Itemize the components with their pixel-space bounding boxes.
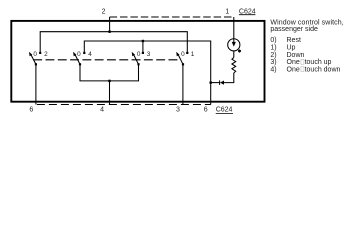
wire S-A pivot to pin6 xyxy=(35,64,37,104)
svg-text:touch down: touch down xyxy=(305,66,341,73)
one-touch unit U1 (circle with arrow) xyxy=(228,39,240,51)
bus3 wire (pivots B,C to pin4) xyxy=(80,64,139,81)
svg-text:2: 2 xyxy=(102,9,106,16)
svg-text:passenger side: passenger side xyxy=(270,26,318,33)
svg-text:3: 3 xyxy=(147,51,151,58)
wire resistor to diode xyxy=(224,73,234,83)
svg-text:4: 4 xyxy=(88,51,92,58)
svg-text:touch up: touch up xyxy=(305,59,332,66)
svg-text:0: 0 xyxy=(181,51,185,58)
asterisk mark xyxy=(238,49,241,52)
bus2 wire xyxy=(84,41,210,105)
svg-text:2): 2) xyxy=(270,52,276,59)
svg-text:2: 2 xyxy=(44,51,48,58)
svg-text:C624: C624 xyxy=(216,107,233,114)
switch S-D (positions 0-1) xyxy=(176,51,195,65)
connector C624 bottom boundary (dashed) xyxy=(37,104,211,106)
connector C624 top boundary (dashed) xyxy=(110,16,232,18)
svg-text:One: One xyxy=(287,66,300,73)
component outline box xyxy=(11,21,264,102)
wire pin1 drop xyxy=(233,17,235,44)
svg-text:1: 1 xyxy=(191,51,195,58)
wire pin2 drop xyxy=(109,17,111,32)
switch S-B (positions 0-4) xyxy=(73,51,92,65)
svg-text:0: 0 xyxy=(137,51,141,58)
node junction bus2/switch3 xyxy=(142,40,144,42)
diode D1 xyxy=(220,81,224,85)
wire switch3 contact riser xyxy=(142,41,144,52)
resistor R1 xyxy=(232,58,236,74)
svg-text:3): 3) xyxy=(270,59,276,66)
wire S-D pivot to pin3 xyxy=(182,64,184,104)
svg-text:0: 0 xyxy=(33,51,37,58)
wire diode to pin6 wire xyxy=(211,82,220,84)
node junction diode/pin6 xyxy=(210,81,212,83)
svg-text:Down: Down xyxy=(287,52,305,59)
svg-text:3: 3 xyxy=(176,107,180,114)
svg-text:Up: Up xyxy=(287,45,296,52)
svg-text:6: 6 xyxy=(204,107,208,114)
switch S-C (positions 0-3) xyxy=(132,51,151,65)
wire pin4 drop xyxy=(109,81,111,105)
svg-text:0): 0) xyxy=(270,37,276,44)
legend text xyxy=(270,20,343,74)
bus1 wire xyxy=(40,32,187,53)
wire circle to resistor xyxy=(233,51,235,58)
svg-text:4): 4) xyxy=(270,66,276,73)
svg-text:1): 1) xyxy=(270,45,276,52)
node junction bus3/pin4 xyxy=(108,80,110,82)
svg-text:4: 4 xyxy=(100,107,104,114)
svg-text:1: 1 xyxy=(225,8,229,15)
svg-text:One: One xyxy=(287,59,300,66)
mechanical coupling (dashed) xyxy=(33,59,178,61)
svg-text:6: 6 xyxy=(29,107,33,114)
svg-text:0: 0 xyxy=(77,51,81,58)
svg-text:Rest: Rest xyxy=(287,37,301,44)
node junction bus1/pin2 xyxy=(108,31,110,33)
switch S-A (positions 0-2) xyxy=(29,51,48,65)
